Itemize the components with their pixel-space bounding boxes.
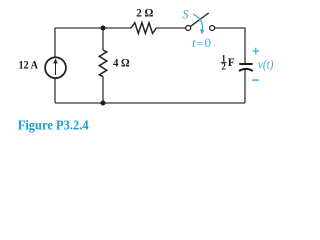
svg-text:S: S: [182, 7, 188, 21]
svg-text:12 A: 12 A: [19, 60, 39, 72]
svg-text:=: =: [197, 37, 204, 51]
svg-text:Figure P3.2.4: Figure P3.2.4: [18, 118, 89, 133]
svg-text:4 Ω: 4 Ω: [113, 58, 130, 70]
svg-text:2 Ω: 2 Ω: [136, 8, 153, 20]
svg-text:0: 0: [205, 35, 212, 50]
svg-text:F: F: [228, 57, 235, 69]
svg-text:v(t): v(t): [258, 58, 273, 72]
